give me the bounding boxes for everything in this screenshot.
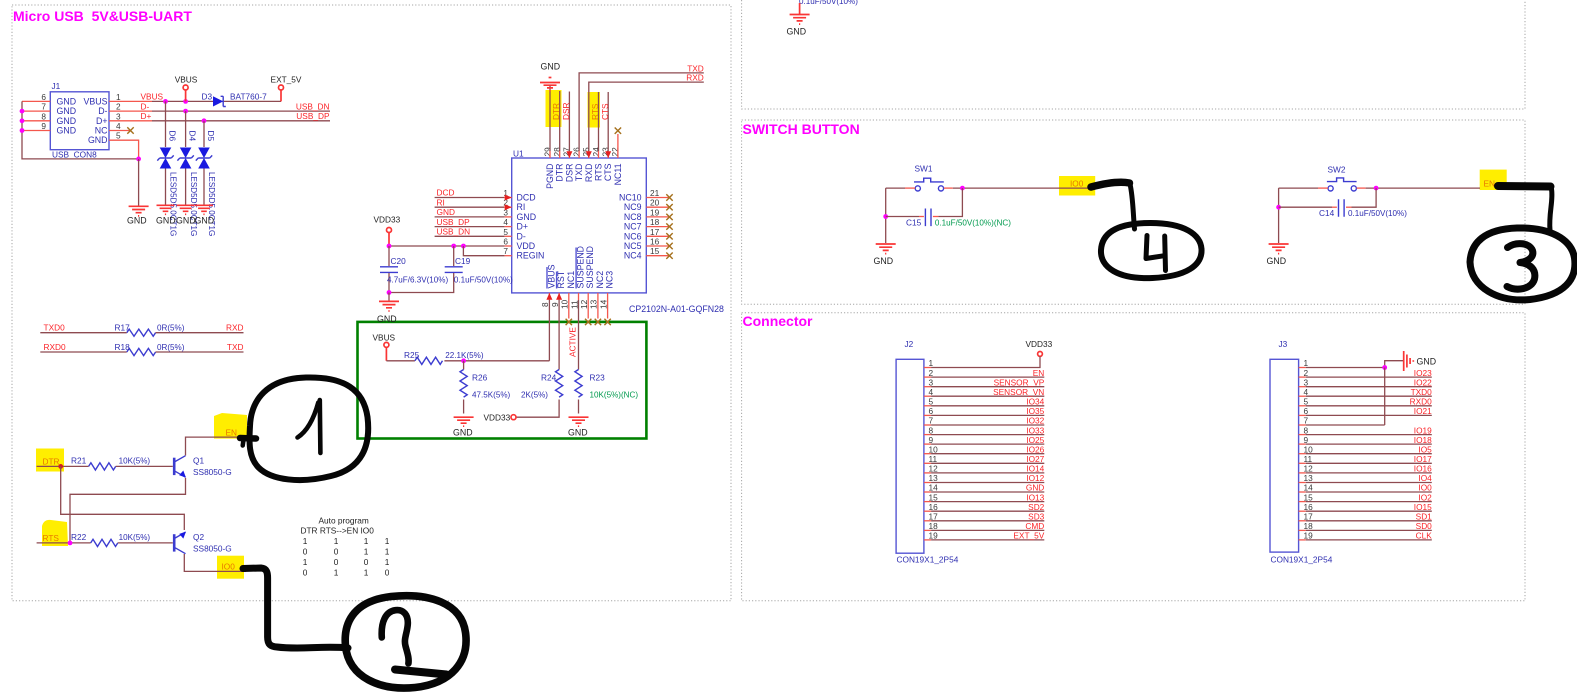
svg-text:14: 14 xyxy=(1304,483,1314,493)
svg-text:11: 11 xyxy=(569,300,579,309)
svg-text:15: 15 xyxy=(1304,492,1314,502)
wire GND stem below J1 xyxy=(138,159,140,206)
wire J2 pin17 SD3 xyxy=(924,520,1044,522)
pin number 1 of J3 xyxy=(1304,358,1309,368)
wire RXD net from U1 pin25 xyxy=(586,82,704,158)
svg-text:RXD0: RXD0 xyxy=(1410,397,1433,407)
svg-text:GND: GND xyxy=(176,216,196,226)
svg-text:RI: RI xyxy=(517,202,526,212)
svg-text:10K(5%): 10K(5%) xyxy=(119,457,151,466)
pin number 17 of J3 xyxy=(1304,512,1314,522)
svg-text:Q1: Q1 xyxy=(193,456,204,466)
section border Micro USB 5V&USB-UART panel xyxy=(12,5,731,601)
pin number 4 of J1 xyxy=(116,121,121,131)
net label SD2 at J2 pin16 xyxy=(1028,502,1045,512)
switch SW2 xyxy=(1327,165,1357,191)
wire J3 pin7 xyxy=(1299,424,1385,426)
svg-text:6: 6 xyxy=(41,92,46,102)
net label SENSOR_VP at J2 pin3 xyxy=(994,377,1045,387)
net label USB_DN at U1 xyxy=(437,227,471,237)
svg-text:29: 29 xyxy=(542,147,552,157)
pin number 3 of J3 xyxy=(1304,377,1309,387)
svg-text:GND: GND xyxy=(57,126,77,136)
svg-text:GND: GND xyxy=(195,216,215,226)
wire U1 pin12 SUSPEND stub xyxy=(587,293,589,319)
svg-text:SWITCH BUTTON: SWITCH BUTTON xyxy=(743,121,860,137)
svg-text:19: 19 xyxy=(650,207,660,217)
net label D- xyxy=(141,101,150,111)
net label GND at J2 pin14 xyxy=(1026,483,1044,493)
pin number 5 of J1 xyxy=(116,131,121,141)
net label IO16 at J3 pin12 xyxy=(1414,464,1432,474)
svg-text:0: 0 xyxy=(364,557,369,567)
wire SW2 right to EN xyxy=(1357,187,1480,189)
wire U1 pin13 NC2 stub xyxy=(597,293,599,319)
svg-text:1: 1 xyxy=(1304,358,1309,368)
hand-drawn marker circle 4 xyxy=(1101,223,1202,278)
svg-text:20: 20 xyxy=(650,198,660,208)
svg-text:IO23: IO23 xyxy=(1414,368,1432,378)
svg-text:2: 2 xyxy=(116,102,121,112)
wire SW1 left vertical xyxy=(885,188,887,243)
junction dot D5 on USB_DP xyxy=(202,118,207,123)
svg-text:GND: GND xyxy=(1417,357,1437,367)
svg-text:0.1uF/50V(10%): 0.1uF/50V(10%) xyxy=(454,275,513,284)
section border Connector panel xyxy=(742,313,1525,601)
svg-text:14: 14 xyxy=(598,299,608,309)
pin number 18 of J2 xyxy=(929,521,939,531)
wire J2 pin13 IO12 xyxy=(924,482,1044,484)
svg-text:6: 6 xyxy=(929,406,934,416)
pin number 21 of U1 xyxy=(650,188,660,198)
wire U1 pin19 stub xyxy=(646,216,669,218)
svg-text:Connector: Connector xyxy=(743,313,814,329)
svg-text:13: 13 xyxy=(589,299,599,309)
svg-text:SD2: SD2 xyxy=(1028,502,1045,512)
svg-text:D3: D3 xyxy=(202,92,213,102)
wire U1 pin2 RI xyxy=(435,204,512,210)
net label TXD0 xyxy=(44,323,66,333)
svg-text:CMD: CMD xyxy=(1025,521,1044,531)
connector J3 CON19X1_2P54 xyxy=(1270,339,1333,565)
pin number 12 of U1 xyxy=(579,299,589,309)
net label IO0 at SW1 xyxy=(1070,178,1084,188)
no-connect X on U1 pin10 xyxy=(566,319,572,325)
no-connect X on U1 pin18 xyxy=(666,223,672,229)
svg-text:17: 17 xyxy=(650,227,660,237)
wire J1 pin6 GND left xyxy=(22,100,50,102)
svg-text:R25: R25 xyxy=(404,350,420,360)
pin number 9 of J1 xyxy=(41,121,46,131)
net label IO32 at J2 pin7 xyxy=(1026,416,1044,426)
svg-text:9: 9 xyxy=(550,302,560,307)
net label IO12 at J2 pin13 xyxy=(1026,473,1044,483)
svg-text:BAT760-7: BAT760-7 xyxy=(230,92,267,102)
svg-text:RTS: RTS xyxy=(594,163,604,181)
net label IO21 at J3 pin6 xyxy=(1414,406,1432,416)
svg-text:IO26: IO26 xyxy=(1026,444,1044,454)
wire U1 pin22 NC11 stub xyxy=(617,134,619,158)
ground symbol below J1 xyxy=(127,206,149,225)
pin number 13 of J2 xyxy=(929,473,939,483)
net label SD3 at J2 pin17 xyxy=(1028,512,1045,522)
svg-text:6: 6 xyxy=(503,237,508,247)
svg-text:R17: R17 xyxy=(115,323,131,333)
ground symbol above U1 xyxy=(540,62,560,91)
net label DTR xyxy=(43,457,60,467)
pin number 13 of J3 xyxy=(1304,473,1314,483)
wire U1 pin1 DCD xyxy=(435,195,512,201)
pin number 8 of J1 xyxy=(41,111,46,121)
svg-text:6: 6 xyxy=(1304,406,1309,416)
svg-text:REGIN: REGIN xyxy=(517,251,545,261)
svg-text:J1: J1 xyxy=(52,81,61,91)
svg-text:15: 15 xyxy=(929,492,939,502)
svg-text:U1: U1 xyxy=(513,149,524,159)
svg-text:IO22: IO22 xyxy=(1414,377,1432,387)
svg-text:D-: D- xyxy=(517,231,526,241)
svg-text:RTS: RTS xyxy=(590,103,600,120)
highlight yellow DTR net label xyxy=(36,449,64,472)
svg-text:47.5K(5%): 47.5K(5%) xyxy=(472,391,511,400)
power symbol EXT_5V xyxy=(271,75,302,102)
wire stub to ground top-right xyxy=(799,3,801,14)
junction dot C20 bottom xyxy=(387,290,392,295)
svg-text:VBUS: VBUS xyxy=(546,264,556,288)
no-connect X on U1 pin21 xyxy=(666,194,672,200)
wire DTR to Q2 emitter xyxy=(61,466,185,530)
svg-text:IO17: IO17 xyxy=(1414,454,1432,464)
net label IO5 at J3 pin10 xyxy=(1418,444,1432,454)
net label TXD xyxy=(687,63,704,73)
svg-text:TXD: TXD xyxy=(574,164,584,182)
no-connect X on U1 pin14 xyxy=(604,319,610,325)
svg-text:GND: GND xyxy=(1026,483,1044,493)
svg-text:EXT_5V: EXT_5V xyxy=(1013,531,1044,541)
svg-text:21: 21 xyxy=(650,188,660,198)
svg-text:GND: GND xyxy=(156,216,176,226)
svg-text:DCD: DCD xyxy=(517,193,536,203)
svg-text:ACTIVE: ACTIVE xyxy=(568,327,578,357)
wire USB_DN net J1 pin2 xyxy=(109,110,330,112)
junction dot D4 on USB_DN xyxy=(183,109,188,114)
resistor R21 10K xyxy=(71,456,173,470)
wire J2 pin1 to VDD33 xyxy=(924,356,1040,367)
svg-text:USB_CON8: USB_CON8 xyxy=(52,150,97,160)
svg-text:IO16: IO16 xyxy=(1414,464,1432,474)
svg-text:GND: GND xyxy=(453,428,473,438)
svg-text:11: 11 xyxy=(929,454,938,464)
svg-text:13: 13 xyxy=(1304,473,1314,483)
resistor R17 0R TXD0-RXD xyxy=(40,323,243,337)
svg-text:NC9: NC9 xyxy=(624,202,642,212)
svg-text:EXT_5V: EXT_5V xyxy=(271,75,302,85)
svg-text:CP2102N-A01-GQFN28: CP2102N-A01-GQFN28 xyxy=(629,304,724,314)
svg-text:1: 1 xyxy=(303,536,308,546)
pin number 5 of J3 xyxy=(1304,397,1309,407)
wire U1 pin29 PGND to ground xyxy=(549,86,551,159)
svg-text:D6: D6 xyxy=(168,131,178,142)
op-amp U1 CP2102N-A01-GQFN28 body xyxy=(512,149,724,315)
svg-text:NC3: NC3 xyxy=(605,271,615,289)
wire J3 pin16 IO15 xyxy=(1299,510,1432,512)
pin number 16 of J2 xyxy=(929,502,939,512)
svg-text:1: 1 xyxy=(303,557,308,567)
svg-text:10K(5%): 10K(5%) xyxy=(119,533,151,542)
svg-text:1: 1 xyxy=(929,358,934,368)
svg-text:VDD: VDD xyxy=(517,241,536,251)
svg-text:1: 1 xyxy=(334,536,339,546)
highlight yellow EN net label at Q1 xyxy=(214,413,247,439)
wire J3 pin12 IO16 xyxy=(1299,472,1432,474)
svg-text:SENSOR_VP: SENSOR_VP xyxy=(994,377,1045,387)
wire J2 pin19 EXT_5V xyxy=(924,539,1044,541)
pin number 6 of J3 xyxy=(1304,406,1309,416)
net label RI xyxy=(437,197,445,207)
svg-text:IO35: IO35 xyxy=(1026,406,1044,416)
svg-text:EN: EN xyxy=(1484,178,1496,188)
pin number 19 of U1 xyxy=(650,207,660,217)
capacitor C15 0.1uF NC xyxy=(886,188,1012,227)
pin number 6 of U1 xyxy=(503,237,508,247)
svg-text:VBUS: VBUS xyxy=(373,333,396,343)
table Auto program xyxy=(301,516,390,578)
svg-text:0: 0 xyxy=(303,546,308,556)
pin number 14 of U1 xyxy=(598,299,608,309)
svg-text:IO25: IO25 xyxy=(1026,435,1044,445)
highlight yellow RTS pin label at U1 xyxy=(588,92,601,128)
svg-text:7: 7 xyxy=(41,102,46,112)
svg-text:10: 10 xyxy=(929,444,939,454)
svg-text:IO34: IO34 xyxy=(1026,397,1044,407)
pin number 23 of U1 xyxy=(601,147,611,157)
svg-text:16: 16 xyxy=(929,502,939,512)
pin number 18 of U1 xyxy=(650,217,660,227)
resistor R18 0R RXD0-TXD xyxy=(40,342,243,356)
no-connect X on U1 pin17 xyxy=(666,233,672,239)
svg-text:IO21: IO21 xyxy=(1414,406,1432,416)
no-connect X on U1 pin22 xyxy=(615,127,621,133)
pin number 16 of J3 xyxy=(1304,502,1314,512)
wire J3 pin10 IO5 xyxy=(1299,453,1432,455)
wire J3 pin15 IO2 xyxy=(1299,501,1432,503)
svg-text:VDD33: VDD33 xyxy=(374,215,401,225)
wire U1 pin14 NC3 stub xyxy=(607,293,609,319)
svg-text:16: 16 xyxy=(650,237,660,247)
svg-text:VBUS: VBUS xyxy=(141,92,164,102)
svg-text:Micro USB 5V&USB-UART: Micro USB 5V&USB-UART xyxy=(13,8,192,24)
wire U1 pin24 RTS stub xyxy=(598,92,600,158)
svg-text:CON19X1_2P54: CON19X1_2P54 xyxy=(897,555,959,565)
net label IO35 at J2 pin6 xyxy=(1026,406,1044,416)
svg-text:4: 4 xyxy=(116,121,121,131)
pin number 5 of J2 xyxy=(929,397,934,407)
resistor R22 10K xyxy=(71,532,173,546)
wire SW1 left xyxy=(886,187,916,189)
pin number 7 of J2 xyxy=(929,416,934,426)
svg-text:NC1: NC1 xyxy=(566,271,576,289)
svg-text:0: 0 xyxy=(303,567,308,577)
wire REGIN branch to U1 pin7 xyxy=(463,246,511,256)
svg-text:7: 7 xyxy=(1304,416,1309,426)
svg-text:GND: GND xyxy=(568,428,588,438)
ground symbol below D4 xyxy=(176,205,196,225)
svg-text:R21: R21 xyxy=(71,456,87,466)
net label IO34 at J2 pin5 xyxy=(1026,397,1044,407)
svg-text:J2: J2 xyxy=(905,339,914,349)
svg-text:RXD: RXD xyxy=(226,323,244,333)
svg-text:IO27: IO27 xyxy=(1026,454,1044,464)
pin number 2 of J3 xyxy=(1304,368,1309,378)
svg-text:19: 19 xyxy=(1304,531,1314,541)
wire J3 pin11 IO17 xyxy=(1299,462,1432,464)
pin number 9 of J3 xyxy=(1304,435,1309,445)
pin number 10 of J3 xyxy=(1304,444,1314,454)
svg-text:28: 28 xyxy=(552,147,562,157)
pin number 20 of U1 xyxy=(650,198,660,208)
no-connect X on U1 pin15 xyxy=(666,253,672,259)
svg-text:VDD33: VDD33 xyxy=(484,412,511,422)
svg-text:R18: R18 xyxy=(115,342,131,352)
junction dot J1 pin7 xyxy=(20,109,25,114)
pin number 6 of J2 xyxy=(929,406,934,416)
net label CTS rotated at U1 xyxy=(600,103,610,120)
net label IO14 at J2 pin12 xyxy=(1026,464,1044,474)
junction dot REGIN branch xyxy=(461,244,466,249)
wire J3 pin1 to GND xyxy=(1299,361,1403,368)
junction dot C19 top xyxy=(451,244,456,249)
net label DTR rotated at U1 xyxy=(551,103,561,120)
svg-text:9: 9 xyxy=(1304,435,1309,445)
wire VBUS net J1 pin1 xyxy=(109,100,281,102)
wire J2 pin18 CMD xyxy=(924,529,1044,531)
wire RTS net xyxy=(37,542,91,544)
pin number 3 of J1 xyxy=(116,111,121,121)
pin number 15 of J3 xyxy=(1304,492,1314,502)
svg-text:J3: J3 xyxy=(1279,339,1288,349)
wire J3 pin18 SD0 xyxy=(1299,529,1432,531)
pin number 6 of J1 xyxy=(41,92,46,102)
svg-text:4.7uF/6.3V(10%): 4.7uF/6.3V(10%) xyxy=(387,275,448,284)
svg-text:DCD: DCD xyxy=(437,188,455,198)
junction dot SW2 right xyxy=(1374,186,1379,191)
svg-text:TXD: TXD xyxy=(227,342,244,352)
net label IO18 at J3 pin9 xyxy=(1414,435,1432,445)
wire U1 pin21 stub xyxy=(646,197,669,199)
svg-text:GND: GND xyxy=(127,216,147,226)
pin number 7 of J1 xyxy=(41,102,46,112)
svg-text:RST: RST xyxy=(556,270,566,288)
pin number 10 of J2 xyxy=(929,444,939,454)
svg-text:SW1: SW1 xyxy=(915,164,933,174)
svg-text:1: 1 xyxy=(334,567,339,577)
wire J3 pin2 IO23 xyxy=(1299,376,1432,378)
capacitor C20 4.7uF xyxy=(380,246,448,293)
svg-text:22: 22 xyxy=(610,147,620,157)
net label RXD at R17 xyxy=(226,323,244,333)
svg-text:CON19X1_2P54: CON19X1_2P54 xyxy=(1271,555,1333,565)
no-connect X on U1 pin12 xyxy=(585,319,591,325)
svg-text:NC11: NC11 xyxy=(613,163,623,185)
ground symbol top-right xyxy=(787,15,810,37)
svg-text:26: 26 xyxy=(571,147,581,157)
pin number 13 of U1 xyxy=(589,299,599,309)
net label EN at J2 pin2 xyxy=(1033,368,1045,378)
pin number 1 of J1 xyxy=(116,92,121,102)
svg-text:GND: GND xyxy=(517,212,537,222)
highlight yellow DTR pin label at U1 xyxy=(546,90,562,127)
net label DCD xyxy=(437,188,455,198)
svg-text:3: 3 xyxy=(929,377,934,387)
svg-text:D+: D+ xyxy=(517,222,529,232)
svg-text:17: 17 xyxy=(929,512,939,522)
net label IO4 at J3 pin13 xyxy=(1418,473,1432,483)
pin number 10 of U1 xyxy=(560,299,570,309)
hand-drawn marker circle 1 xyxy=(249,377,368,480)
connector J2 CON19X1_2P54 xyxy=(896,339,959,565)
pin number 24 of U1 xyxy=(591,147,601,157)
net label IO23 at J3 pin2 xyxy=(1414,368,1432,378)
svg-text:DSR: DSR xyxy=(564,164,574,183)
hand-drawn marker circle 3 xyxy=(1470,228,1575,300)
svg-text:8: 8 xyxy=(929,425,934,435)
ESD diode D5 LESD5D5.0CT1G xyxy=(196,121,216,237)
svg-text:PGND: PGND xyxy=(545,164,555,189)
wire U1 pin10 NC1 stub xyxy=(568,293,570,319)
pin number 27 of U1 xyxy=(562,147,572,157)
wire J3 pin14 IO0 xyxy=(1299,491,1432,493)
svg-text:RXD0: RXD0 xyxy=(44,342,67,352)
svg-text:RTS: RTS xyxy=(43,533,60,543)
svg-text:VBUS: VBUS xyxy=(84,96,108,106)
pin number 3 of U1 xyxy=(503,207,508,217)
wire J1 pin9 GND left xyxy=(22,130,50,132)
svg-text:TXD0: TXD0 xyxy=(1411,387,1433,397)
svg-text:VBUS: VBUS xyxy=(175,75,198,85)
svg-text:LESD5D5.0CT1G: LESD5D5.0CT1G xyxy=(189,172,198,236)
svg-text:DTR RTS-->EN IO0: DTR RTS-->EN IO0 xyxy=(301,525,375,535)
net label IO15 at J3 pin16 xyxy=(1414,502,1432,512)
wire J3 pin1 to pin7 vertical xyxy=(1384,368,1386,426)
pin number 8 of U1 xyxy=(540,302,550,307)
wire J3 pin6 IO21 xyxy=(1299,414,1432,416)
svg-text:GND: GND xyxy=(787,27,807,37)
junction dot GND bus at J1 xyxy=(136,157,141,162)
net label IO13 at J2 pin15 xyxy=(1026,492,1044,502)
svg-text:9: 9 xyxy=(41,121,46,131)
diode D3 BAT760-7 xyxy=(202,92,268,107)
pin number 2 of U1 xyxy=(503,198,508,208)
svg-text:SUSPEND: SUSPEND xyxy=(576,246,586,289)
svg-text:EN: EN xyxy=(226,427,238,437)
svg-text:NC8: NC8 xyxy=(624,212,642,222)
net label RTS xyxy=(43,533,60,543)
net label VBUS xyxy=(141,92,164,102)
svg-text:15: 15 xyxy=(650,246,660,256)
svg-text:18: 18 xyxy=(929,521,939,531)
svg-text:18: 18 xyxy=(1304,521,1314,531)
power symbol VBUS xyxy=(175,75,198,102)
hand-drawn marker tail at IO0 SW1 xyxy=(1091,182,1135,229)
wire U1 pin5 USB_DN xyxy=(435,235,512,237)
wire U1 pin28 DTR stub xyxy=(559,91,561,158)
svg-text:NC5: NC5 xyxy=(624,241,642,251)
svg-text:24: 24 xyxy=(591,147,601,157)
capacitor C19 0.1uF xyxy=(389,246,513,293)
section border top-right partial panel xyxy=(742,0,1525,109)
svg-text:17: 17 xyxy=(1304,512,1314,522)
wire U1 pin9 RST to R24 xyxy=(556,293,562,370)
